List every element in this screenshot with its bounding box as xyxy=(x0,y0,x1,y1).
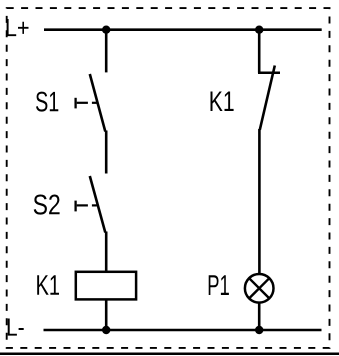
junction: S1 branch at L+ rail xyxy=(102,26,110,34)
wire: K1 contact to lamp P1 xyxy=(258,129,261,274)
wire: S1 bottom terminal to S2 top terminal xyxy=(105,131,108,174)
net label L- xyxy=(8,319,24,336)
wire: lamp P1 to L- rail xyxy=(258,303,261,330)
wire: L+ rail down to K1 contact xyxy=(258,30,261,73)
label K1 (coil) xyxy=(37,275,59,295)
net label L+ xyxy=(7,19,29,36)
wire: L+ rail down to S1 top terminal xyxy=(105,30,108,73)
label S2 xyxy=(34,195,60,215)
relay contact K1 (normally open) xyxy=(258,66,280,130)
label P1 xyxy=(209,275,229,295)
wire: L+ supply rail (top) xyxy=(44,28,322,31)
lamp P1 (indicator light) xyxy=(245,274,274,303)
label S1 xyxy=(36,92,58,112)
relay coil K1 xyxy=(76,272,136,300)
pushbutton S1, NO contact with manual actuator xyxy=(76,74,106,132)
wire: L- supply rail (bottom) xyxy=(44,329,322,332)
pushbutton S2, NO contact with manual actuator xyxy=(76,176,106,233)
label K1 (contact) xyxy=(211,92,234,112)
junction: P1 branch at L- rail xyxy=(255,326,263,334)
wire: K1 coil to L- rail xyxy=(105,299,108,330)
wire: S2 bottom terminal to K1 coil xyxy=(105,232,108,271)
junction: K1 contact branch at L+ rail xyxy=(255,26,263,34)
junction: K1 coil branch at L- rail xyxy=(102,326,110,334)
